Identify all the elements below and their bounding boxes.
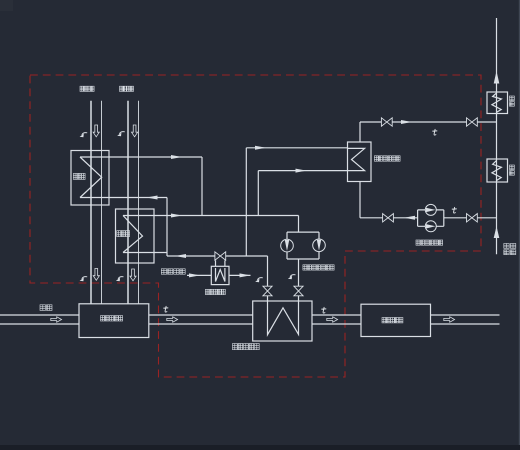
LP heater A coil zigzag <box>492 93 502 112</box>
wire condensate hx top riser <box>359 122 361 142</box>
label air heater 1 <box>73 173 85 179</box>
label condensate heat exchanger <box>374 156 400 161</box>
label aux steam heater <box>205 289 225 294</box>
wire cold secondary air duct line right <box>138 101 140 304</box>
flow arrow right on air heater1 top line <box>171 155 182 159</box>
flow arrow flue gas inlet <box>51 317 62 322</box>
air heater 1 box <box>71 151 109 206</box>
label air heater 2 <box>117 231 130 237</box>
valve on hot water line <box>215 252 226 260</box>
flow arrow right aux steam inlet <box>189 273 200 277</box>
valve economizer left leg <box>263 286 272 296</box>
flow arrow right on air heater2 top line <box>171 214 182 218</box>
wire vertical x167 <box>166 198 168 257</box>
wire condensate inlet line <box>360 217 497 219</box>
wire pump outlet drop <box>298 259 300 286</box>
flow arrow right on y171 line <box>296 169 307 173</box>
wire air heater 1 steam outlet top <box>80 156 202 158</box>
temperature tag after economizer <box>322 307 326 313</box>
wire air heater 1 condensate inlet bottom <box>80 197 167 199</box>
wire riser x267 to hot water line <box>267 256 269 286</box>
low temp economizer box <box>253 301 312 341</box>
flow arrow down secondary air bottom <box>130 269 136 281</box>
valve economizer right leg <box>294 286 303 296</box>
pump recirculation 1 <box>281 239 294 252</box>
red dashed system boundary <box>30 75 481 377</box>
flow arrow down primary air top <box>93 125 99 137</box>
flow arrow after economizer <box>327 317 338 322</box>
flow arrow down primary air bottom <box>93 269 99 281</box>
pump condensate booster 2 <box>425 221 436 232</box>
temperature tag condensate outlet <box>433 129 437 135</box>
label cold primary air <box>80 86 94 91</box>
label hot media water recirculation pump <box>303 265 334 270</box>
wire condensate outlet line <box>360 121 497 123</box>
wire riser x258 <box>257 171 259 216</box>
flow arrow left into air heater1 bottom <box>147 196 158 200</box>
air heater 1 coil chevron <box>80 157 102 198</box>
wire aux steam outlet <box>229 274 251 276</box>
air heater 2 coil chevron <box>123 216 143 253</box>
wire hot water line y256 <box>167 255 268 257</box>
temperature tag after air preheater <box>164 306 168 312</box>
wire cold secondary air duct line left <box>127 101 129 304</box>
temperature tag booster outlet <box>452 207 456 213</box>
condensate heat exchanger box <box>348 142 372 182</box>
drain symbol near secondary air top <box>117 132 125 137</box>
valve condensate outlet 2 <box>467 118 478 126</box>
right edge highlight <box>519 0 520 445</box>
flow arrow right aux steam outlet <box>240 273 251 277</box>
label low temp economizer <box>233 344 260 350</box>
label flue gas <box>40 305 52 311</box>
flow arrow right condensate outlet <box>401 120 412 124</box>
label LP heater A <box>510 96 515 106</box>
pump recirculation 2 <box>313 239 326 252</box>
drain symbol after steam heater <box>255 278 263 283</box>
flow arrow after precipitator <box>444 317 455 322</box>
electrostatic precipitator box <box>361 304 431 336</box>
wire supply line y148 to condensate hx <box>246 147 347 149</box>
drain symbol near pump outlet <box>288 275 296 280</box>
label air preheater <box>101 316 123 321</box>
wire booster pump manifold <box>418 210 444 226</box>
label to regenerative system <box>504 244 516 255</box>
flow arrow up main riser lower <box>494 226 500 238</box>
wire valve1 to economizer <box>267 296 269 301</box>
wire cold primary air duct line left <box>90 101 92 304</box>
condensate hx coil <box>348 148 365 170</box>
air preheater box <box>79 304 149 338</box>
aux steam heater box <box>211 266 229 284</box>
wire riser x246 <box>245 148 247 256</box>
label auxiliary steam <box>161 269 185 274</box>
air heater 2 box <box>116 209 155 263</box>
flow arrow after air preheater <box>167 317 178 322</box>
corner artifact <box>0 0 13 11</box>
wire valve2 to economizer <box>298 296 300 301</box>
wire condensate hx bottom riser <box>359 182 361 218</box>
wire flue duct upper line <box>0 314 500 316</box>
LP heater A box <box>487 92 508 114</box>
wire flue duct lower line <box>0 323 500 325</box>
valve condensate outlet 1 <box>381 118 392 126</box>
wire cold primary air duct line right <box>101 101 103 304</box>
LP heater B box <box>487 159 508 182</box>
label LP heater B <box>510 165 515 175</box>
wire main condensate riser <box>496 18 498 254</box>
economizer coil <box>268 301 299 335</box>
wire return line y171 from condensate hx <box>258 170 347 172</box>
wire air heater 2 top line to pumps <box>123 215 299 217</box>
LP heater B coil zigzag <box>492 161 502 181</box>
wire valve legs to heater box <box>216 260 225 266</box>
drain symbol near primary air bottom <box>80 277 88 282</box>
valve condensate inlet <box>383 214 394 222</box>
flow arrow down secondary air top <box>132 125 138 137</box>
wire recirc pump manifold <box>287 232 319 259</box>
wire aux steam inlet <box>187 274 211 276</box>
label condensate booster pump <box>416 240 443 245</box>
wire pump feed drop x298 <box>298 216 300 233</box>
wire air heater 2 bottom line <box>123 252 167 254</box>
wire vertical drop x202 <box>201 157 203 216</box>
valve after booster pump <box>467 214 478 222</box>
label electrostatic precipitator <box>382 318 403 323</box>
pump condensate booster 1 <box>425 204 436 215</box>
label cold secondary air <box>120 86 134 91</box>
drain symbol near primary air top <box>80 133 88 138</box>
drain symbol near secondary air bottom <box>116 277 124 282</box>
aux steam heater coil W <box>216 268 225 282</box>
flow arrow left condensate inlet <box>404 216 415 220</box>
flow arrow up main riser top <box>494 71 500 84</box>
flow arrow right on y148 line <box>255 146 266 150</box>
flow arrow left on hot water line <box>175 254 186 258</box>
